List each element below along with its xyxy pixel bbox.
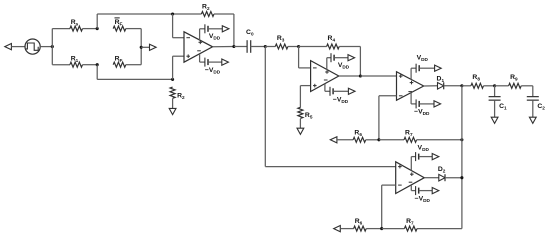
resistor R5 xyxy=(298,107,313,119)
capacitor C1 xyxy=(489,97,507,111)
node J on right rail xyxy=(460,138,463,141)
wire node G to R8 xyxy=(462,85,471,87)
resistor Rf-bar xyxy=(113,18,126,31)
wire R6 to node L xyxy=(366,228,382,230)
wire Rf-bar right xyxy=(126,29,142,48)
node C with test-point arrow xyxy=(140,44,156,50)
-VDD supply U1 xyxy=(200,54,229,75)
wire inverting input U4 xyxy=(382,185,396,229)
wire R7 to right rail bottom xyxy=(417,228,462,230)
node F xyxy=(297,45,300,48)
-VDD supply U2 xyxy=(325,84,355,104)
wire R8 to node H xyxy=(484,85,495,87)
resistor Rs xyxy=(70,19,83,31)
diode D1 xyxy=(437,76,445,90)
diode D2 xyxy=(438,166,446,181)
node K xyxy=(460,176,463,179)
resistor R9 xyxy=(509,74,522,88)
node U2 output xyxy=(339,74,362,77)
wire C2 to ground xyxy=(532,100,534,117)
wire node F to R4 xyxy=(299,46,327,48)
node H xyxy=(493,84,496,87)
resistor R2 to ground xyxy=(170,87,185,100)
wire C1 to ground xyxy=(494,100,496,117)
node E xyxy=(264,45,267,48)
wire R7 to right rail xyxy=(417,139,462,141)
wire R9 to C2 xyxy=(521,86,533,97)
node T on top wire xyxy=(171,12,174,15)
wire U1 output xyxy=(213,46,234,48)
capacitor C0 xyxy=(246,29,254,53)
wire R3 to node F xyxy=(288,46,299,48)
resistor R6 middle xyxy=(353,130,366,143)
resistor R1 xyxy=(70,55,83,67)
wire U3 output to D1 xyxy=(424,85,438,87)
-VDD supply U4 xyxy=(411,185,439,203)
wire R4 to U2 output xyxy=(339,47,360,77)
-VDD supply U3 xyxy=(411,93,441,117)
op-amp U2 xyxy=(311,61,339,92)
resistor RF xyxy=(113,55,126,67)
reference arrow bottom row xyxy=(334,226,354,232)
op-amp U1 xyxy=(184,32,213,62)
wire noninverting input U2 xyxy=(300,86,310,108)
resistor R7 middle xyxy=(379,130,417,143)
wire RF right xyxy=(126,47,141,64)
node B (R1/RF junction) xyxy=(96,63,99,79)
VDD supply U1 xyxy=(200,24,229,40)
VDD supply U3 xyxy=(411,54,441,79)
capacitor C2 xyxy=(527,97,545,111)
square-wave source V1 xyxy=(25,39,40,54)
node L xyxy=(380,227,383,230)
ground below C1 xyxy=(491,117,498,123)
wire D1 to node G xyxy=(444,85,462,87)
wire R2 to output xyxy=(214,14,234,47)
wire output to C0 xyxy=(234,46,247,48)
wire bottom branch left xyxy=(52,64,70,66)
wire R5 to ground xyxy=(299,119,301,129)
wire node E down to U4 xyxy=(265,47,395,167)
VDD supply U4 xyxy=(411,145,439,171)
wire source to split node xyxy=(40,46,52,48)
wire noninverting input U1 xyxy=(173,56,184,79)
op-amp U3 xyxy=(397,72,424,101)
wire D2 to node K xyxy=(445,177,462,179)
wire node E to R3 xyxy=(265,46,275,48)
node G xyxy=(460,84,463,87)
node D low rail xyxy=(171,78,174,81)
wire C0 to node E xyxy=(251,46,266,48)
wire U4 output to D2 xyxy=(424,177,439,179)
wire inverting input U3 xyxy=(379,96,397,140)
resistor R4 feedback xyxy=(327,35,340,49)
input terminal arrow xyxy=(5,44,25,50)
wire node H to C1 xyxy=(494,86,496,97)
resistor R3 xyxy=(275,35,288,49)
resistor R2 feedback xyxy=(201,4,214,17)
wire R1 to node xyxy=(83,64,98,66)
op-amp U4 xyxy=(396,162,425,194)
reference arrow middle row xyxy=(330,137,353,143)
resistor R8 xyxy=(471,74,484,88)
wire to inverting input U2 xyxy=(299,47,311,68)
wire top branch left xyxy=(52,28,70,30)
ground below R5 xyxy=(297,128,304,134)
resistor R7 bottom xyxy=(382,218,417,231)
node I xyxy=(377,138,380,141)
wire inverting input U1 xyxy=(173,14,184,38)
node U1 output xyxy=(232,45,235,48)
node A (Rs/Rf-bar junction) xyxy=(96,14,99,30)
wire R6 to node I xyxy=(366,139,379,141)
feedback top wire xyxy=(97,13,201,15)
wire U2 output to U3 xyxy=(360,75,396,77)
wire node H to R9 xyxy=(495,85,509,87)
wire low rail xyxy=(97,78,172,80)
wire Rs to node xyxy=(83,28,98,30)
ground below C2 xyxy=(529,117,536,123)
resistor R6 bottom xyxy=(354,218,367,231)
node split after source xyxy=(51,29,54,65)
VDD supply U2 xyxy=(327,53,355,69)
wire R2 to ground symbol xyxy=(172,99,174,109)
right vertical rail xyxy=(461,86,463,229)
ground below R2 xyxy=(169,108,176,114)
